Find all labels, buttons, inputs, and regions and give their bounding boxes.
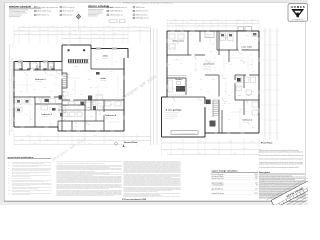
svg-text:bedroom 2: bedroom 2 xyxy=(35,79,46,81)
svg-text:First Floor: First Floor xyxy=(261,142,273,145)
svg-text:9'0 x 8'0 overhead door: 9'0 x 8'0 overhead door xyxy=(174,132,197,134)
svg-text:3050 single hung egress win: 3050 single hung egress win xyxy=(37,7,58,9)
svg-text:14'0 x 11'0: 14'0 x 11'0 xyxy=(173,43,180,45)
svg-text:square footage calculation: square footage calculation xyxy=(212,170,238,173)
svg-text:dining room: dining room xyxy=(173,40,185,42)
svg-text:2068 bifold dr: 2068 bifold dr xyxy=(110,11,124,13)
svg-text:attic: attic xyxy=(103,55,109,58)
svg-text:2668 hollow core dr: 2668 hollow core dr xyxy=(110,7,128,9)
svg-text:2668 french dr: 2668 french dr xyxy=(136,11,149,13)
svg-text:2 car garage: 2 car garage xyxy=(166,109,182,111)
svg-text:3070 swing dr: 3070 swing dr xyxy=(63,11,75,13)
svg-text:2850 single hung: 2850 single hung xyxy=(37,11,51,13)
svg-text:garden: garden xyxy=(206,34,212,36)
svg-text:attic: attic xyxy=(101,77,107,80)
svg-text:general notes specifications: general notes specifications xyxy=(8,156,35,159)
svg-text:11'6 x 10'0: 11'6 x 10'0 xyxy=(106,117,113,119)
svg-text:laun: laun xyxy=(238,95,242,97)
svg-text:5050 slider xo: 5050 slider xo xyxy=(37,15,49,17)
svg-text:Exhibiting over 70 years of De: Exhibiting over 70 years of Design Excel… xyxy=(123,1,174,4)
svg-text:11'0 x 10'6: 11'0 x 10'6 xyxy=(42,116,49,118)
svg-text:11'0 x 12'6: 11'0 x 12'6 xyxy=(35,81,42,83)
svg-text:6070 sl gl dr: 6070 sl gl dr xyxy=(63,7,76,9)
svg-text:14'6 x 13'0: 14'6 x 13'0 xyxy=(242,49,249,51)
svg-text:bedroom 3: bedroom 3 xyxy=(42,114,53,116)
svg-text:18'0 x 16'4: 18'0 x 16'4 xyxy=(204,66,211,68)
svg-text:5068 byp mirror: 5068 byp mirror xyxy=(136,18,150,20)
svg-text:Second Floor: Second Floor xyxy=(124,142,138,144)
svg-text:c o m p a n y: c o m p a n y xyxy=(292,19,303,21)
svg-text:dw: dw xyxy=(169,91,172,93)
svg-text:H O M E S: H O M E S xyxy=(291,7,306,9)
svg-text:1668 linen: 1668 linen xyxy=(136,7,145,9)
svg-text:great room: great room xyxy=(204,62,216,65)
